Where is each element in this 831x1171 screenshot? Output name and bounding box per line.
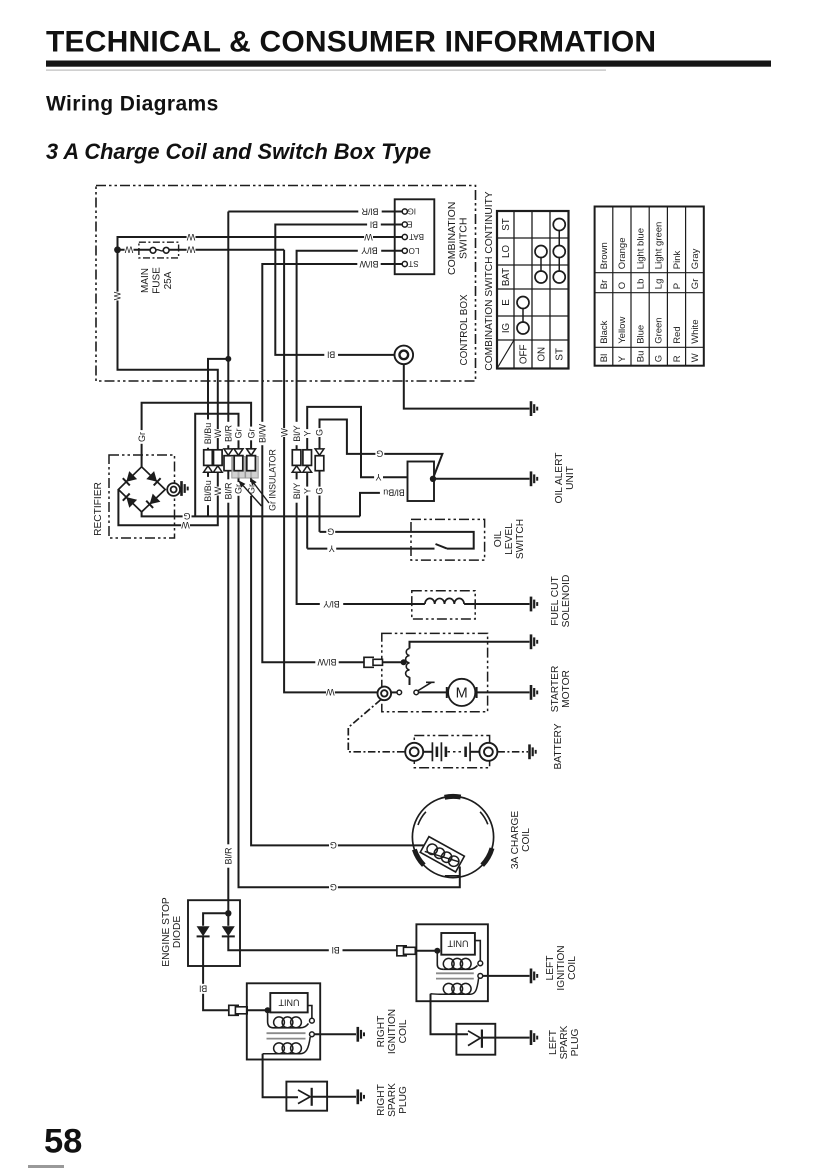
svg-text:OFF: OFF [518,344,529,364]
svg-text:G: G [315,487,325,494]
wire G connector to oil alert unit [320,420,443,532]
svg-text:Gr: Gr [137,432,147,442]
oil level switch enclosure [411,519,485,560]
svg-text:MOTOR: MOTOR [561,670,572,708]
label W at starter [326,687,335,697]
svg-text:Black: Black [599,320,610,343]
svg-text:Bl/Y: Bl/Y [292,483,302,500]
left CDI unit box [441,933,475,955]
right coil core [267,1033,306,1038]
right coil primary terminal [310,1018,315,1023]
wire contact to motor [419,691,449,693]
svg-text:STARTER: STARTER [550,666,561,713]
svg-text:SOLENOID: SOLENOID [561,575,572,628]
starter motor M [448,679,475,706]
svg-text:Gr: Gr [246,428,256,438]
svg-text:OIL ALERT: OIL ALERT [554,453,565,504]
svg-text:Bl/Y: Bl/Y [361,246,378,256]
flywheel magnet right [482,848,492,865]
wire Bl from right diode to left ignition coil [228,936,397,950]
svg-text:W: W [279,428,289,437]
battery positive terminal [405,743,423,761]
svg-text:Bl/R: Bl/R [223,847,233,865]
label Bl/W at switch [357,259,380,269]
wire branch to left diode [203,913,228,926]
svg-text:LEFT: LEFT [545,956,556,981]
svg-text:FUEL CUT: FUEL CUT [550,576,561,625]
left spark plug gap [468,1031,480,1046]
wire Bl/Bu to oil alert unit [360,493,408,517]
svg-text:Light green: Light green [654,222,665,270]
svg-text:W: W [364,232,373,242]
svg-text:Brown: Brown [599,242,610,269]
label Bl/Bu at oil alert unit [380,488,408,498]
label Gr above connector 5 [246,427,257,441]
svg-text:Lb: Lb [635,279,646,290]
svg-text:UNIT: UNIT [278,998,299,1008]
svg-text:SWITCH: SWITCH [515,519,526,559]
wire Bl/Y from LO terminal to fuel cut solenoid [297,251,425,604]
main fuse element [150,247,156,253]
svg-text:W: W [213,486,223,495]
svg-text:Light blue: Light blue [635,228,646,269]
label Gr at rectifier [136,430,147,444]
oil level switch contact arm [436,544,448,549]
svg-text:White: White [690,320,701,344]
starter battery terminal post [378,687,392,701]
wire into left coil primary [415,950,437,952]
svg-text:O: O [617,282,628,289]
svg-text:COMBINATION: COMBINATION [446,202,458,275]
rectifier diode D2 (top-right) [146,471,157,482]
label W above connector run [279,428,290,437]
wire primary terminal to unit [308,1006,312,1019]
svg-text:W: W [213,429,223,438]
right spark plug box [286,1082,327,1111]
ground for fuel cut solenoid [530,597,533,612]
battery cell plates negative side [464,747,467,757]
wire Bl/W from ST terminal to starter magnetic switch [262,264,402,662]
label Y above connector [302,429,313,438]
wire left coil to ground [483,975,530,977]
svg-text:RIGHT: RIGHT [376,1016,387,1048]
connector on Bl/Y wire [292,450,301,466]
svg-text:Orange: Orange [617,238,628,270]
svg-text:Green: Green [654,317,665,343]
svg-text:IG: IG [501,323,512,333]
connector on Bl/Bu wire [204,450,213,466]
Gr insulator sleeve on connector 4 [232,457,245,479]
ground for starter motor [530,685,533,700]
wire terminal to contact [391,691,397,693]
svg-text:Bl/W: Bl/W [257,423,267,443]
svg-text:Bl/Y: Bl/Y [292,425,302,442]
wire starter motor to ground [475,691,529,693]
flywheel notch upper-right [480,812,488,825]
wire Y connector to oil alert unit [307,407,407,549]
label Gr below connector 5 [246,482,257,496]
label Bl/Y above connector [291,422,302,445]
label G at rectifier [183,511,192,521]
wire W main run to rectifier and starter feed [118,250,218,526]
svg-text:G: G [654,355,665,362]
connector on Y wire [303,450,312,466]
ground for left ignition coil [530,969,533,984]
wire Bl/Bu branch to oil alert unit [208,359,228,517]
starter motor enclosure [382,633,488,711]
svg-text:BAT: BAT [409,232,424,241]
svg-text:M: M [456,686,468,702]
node junction at main fuse [114,246,121,253]
label Bl at switch [367,220,381,230]
svg-text:Lg: Lg [654,279,665,290]
svg-text:Bu: Bu [635,351,646,363]
svg-text:Bl/Bu: Bl/Bu [203,480,213,502]
wire relay coil top to ground [410,642,530,649]
svg-text:G: G [330,882,337,892]
label W on BAT wire left [187,232,196,242]
svg-text:P: P [672,283,683,289]
label Bl/R above connector [223,422,234,445]
combination switch terminal pins IG E BAT LO ST [402,209,407,214]
svg-text:Bl/W: Bl/W [317,657,337,667]
svg-text:Wiring Diagrams: Wiring Diagrams [46,93,219,116]
svg-text:COIL: COIL [521,828,532,852]
svg-text:Bl/Y: Bl/Y [323,599,340,609]
svg-text:Gr INSULATOR: Gr INSULATOR [268,449,278,511]
label Bl/Y at fuel cut solenoid [320,599,343,609]
fuel cut solenoid coil L1 [425,598,464,604]
svg-text:Pink: Pink [672,250,683,269]
svg-text:SWITCH: SWITCH [458,218,470,259]
svg-text:ENGINE STOP: ENGINE STOP [161,897,172,967]
engine stop diode D6 [227,913,229,926]
node junction at relay coil [401,659,407,665]
ground for Bl wire [530,401,533,416]
battery mid link [448,751,465,753]
svg-text:LO: LO [501,245,512,258]
right spark plug gap [298,1090,310,1104]
svg-text:PLUG: PLUG [398,1086,409,1114]
label Bl/R near charge coil [223,844,234,867]
svg-text:Y: Y [302,488,312,494]
label W on BAT wire right [364,232,373,242]
svg-text:COIL: COIL [567,956,578,980]
left ignition coil box [416,924,488,1001]
wire W battery feed to starter [284,250,378,693]
connector at right ignition coil [229,1005,239,1015]
svg-text:SPARK: SPARK [559,1025,570,1059]
label Bl/Bu below connector [203,477,214,505]
label W left of fuse [125,245,134,255]
wire G to oil level switch [320,532,474,549]
svg-text:RIGHT: RIGHT [376,1084,387,1116]
node junction Bl/R to Bl/Bu branch [225,356,231,362]
wire left spark plug to ground [482,1037,530,1039]
grommet terminal in control box [395,346,414,365]
svg-text:IGNITION: IGNITION [387,1009,398,1054]
leader arrow to insulator 2 [243,486,261,506]
fuel cut solenoid enclosure [412,591,475,619]
svg-text:IG: IG [408,207,416,216]
wire fuel cut solenoid to ground [464,603,529,605]
starter motor brushes [447,687,477,698]
svg-text:25A: 25A [163,271,174,289]
label Bl/R at switch [358,207,381,217]
Gr insulator sleeve on connector 5 [246,457,259,479]
svg-text:BAT: BAT [501,268,512,286]
right coil secondary terminal [310,1032,315,1037]
label Bl on right diode wire [329,945,343,955]
svg-text:W: W [124,245,133,255]
wire Bl from E terminal [275,225,402,355]
wire into right coil primary [247,1009,267,1011]
left coil primary terminal [478,961,483,966]
svg-text:UNIT: UNIT [565,466,576,490]
rectifier case ground [180,481,183,496]
wire right coil secondary to spark plug [263,1054,298,1097]
rectifier diode D4 (bottom-right) [150,494,161,505]
rectifier diode D3 (bottom-left) [126,497,137,508]
svg-text:58: 58 [44,1123,82,1161]
control box enclosure [96,186,476,382]
label W below connector [212,487,223,496]
svg-text:Yellow: Yellow [617,317,628,344]
label Gr below connector 4 [233,482,244,496]
svg-text:Red: Red [672,326,683,343]
wire oil alert unit to ground [434,478,530,480]
left spark plug box [456,1024,495,1055]
label Bl on left diode wire [196,984,210,994]
svg-text:FUSE: FUSE [152,267,163,294]
battery negative cable to ground [497,751,528,753]
label G at oil level switch [326,527,335,537]
ground for relay coil [530,634,533,649]
connector on G wire [315,449,324,455]
battery BAT1 cell plates [431,742,433,761]
svg-text:Y: Y [375,472,381,482]
header rule [46,61,771,67]
svg-text:ON: ON [536,347,547,362]
label G on charge coil top lead [329,840,338,850]
node junction on oil alert unit [430,476,436,482]
svg-text:MAIN: MAIN [140,268,151,293]
svg-text:E: E [501,299,512,306]
wire Bl from left diode to right ignition coil [203,936,229,1010]
svg-text:R: R [672,355,683,362]
wire Y to oil level switch [307,548,434,550]
svg-text:LEFT: LEFT [548,1030,559,1055]
wire left coil secondary to spark plug [431,994,469,1034]
svg-text:PLUG: PLUG [570,1029,581,1057]
connector on Bl/R wire [224,449,233,455]
connector on W wire [214,450,223,466]
svg-text:COMBINATION SWITCH CONTINUITY: COMBINATION SWITCH CONTINUITY [484,191,495,370]
svg-text:ST: ST [555,348,566,361]
right coil secondary winding [274,1043,285,1054]
svg-text:DIODE: DIODE [172,916,183,948]
label W right of fuse [187,245,196,255]
svg-text:IGNITION: IGNITION [556,945,567,990]
svg-text:3A CHARGE: 3A CHARGE [510,811,521,870]
label W above connector [212,429,223,438]
connector on Bl/W wire [364,657,374,667]
svg-text:TECHNICAL & CONSUMER INFORMATI: TECHNICAL & CONSUMER INFORMATION [46,26,656,59]
label Bl/Y below connector [291,479,302,502]
label Bl/R below connector [223,479,234,502]
label G on charge coil bottom lead [329,882,338,892]
svg-text:Bl: Bl [327,350,335,360]
oil alert unit box [408,462,435,502]
rectifier enclosure [109,455,175,538]
battery enclosure [414,736,489,768]
svg-text:W: W [326,687,335,697]
svg-text:Gr: Gr [234,428,244,438]
connector on G wire [234,449,243,455]
label Y below connector [302,487,313,496]
svg-text:G: G [376,449,383,459]
label Bl/Bu above connector [203,419,214,447]
svg-text:Gray: Gray [690,248,701,269]
relay contact arm [418,682,435,691]
wire right spark plug to ground [312,1096,356,1098]
label G below connector [314,487,325,496]
main fuse F1 enclosure [139,242,179,258]
svg-text:3 A Charge Coil and Switch Box: 3 A Charge Coil and Switch Box Type [46,139,431,164]
rectifier case terminal [167,483,180,496]
svg-text:RECTIFIER: RECTIFIER [93,482,104,536]
wire W through main fuse [118,249,151,251]
wire Bl/R vertical run to engine stop diode [227,212,229,914]
svg-text:Bl/Bu: Bl/Bu [203,423,213,445]
svg-text:Bl: Bl [332,945,340,955]
svg-text:BATTERY: BATTERY [553,723,564,769]
left coil core [436,973,474,978]
battery cable from starter terminal [348,700,405,752]
svg-text:Bl/Bu: Bl/Bu [383,488,405,498]
relay contact points [397,690,402,695]
node junction right coil [265,1007,271,1013]
svg-text:Bl/R: Bl/R [223,482,233,500]
wire right coil to ground [314,1033,356,1035]
svg-text:W: W [113,291,123,300]
svg-text:E: E [407,220,412,229]
svg-text:Bl/R: Bl/R [223,425,233,443]
svg-text:COIL: COIL [398,1019,409,1043]
engine stop diode box [188,900,240,966]
svg-text:Gr: Gr [690,279,701,290]
svg-text:SPARK: SPARK [387,1083,398,1117]
svg-text:UNIT: UNIT [447,939,468,949]
svg-text:G: G [315,429,325,436]
svg-text:Bl/W: Bl/W [359,259,379,269]
label Bl near grommet [324,350,338,360]
ground for oil alert unit [530,471,533,486]
svg-text:Bl/R: Bl/R [361,206,379,216]
flywheel magnet left [414,850,423,866]
svg-text:G: G [183,511,190,521]
label G at oil alert unit [375,449,384,459]
connector on Gr wire [247,449,256,455]
svg-text:G: G [327,527,334,537]
label Bl/Y at switch [358,246,381,256]
flywheel magnet top [445,794,461,800]
svg-text:Y: Y [329,543,335,553]
ground for battery [528,744,531,759]
svg-text:Br: Br [599,280,610,290]
svg-text:Bl: Bl [599,354,610,362]
wire Bl/W to relay coil [383,661,404,663]
left coil secondary winding [443,983,454,994]
label W on left vertical [112,292,123,301]
combination switch U1 [395,199,435,274]
svg-text:W: W [186,232,195,242]
svg-text:Blue: Blue [635,325,646,344]
starter relay coil [406,649,410,678]
relay plunger link [409,677,411,685]
svg-text:G: G [330,840,337,850]
charge coil winding [420,837,464,872]
label Y at oil level switch [327,544,336,554]
svg-text:W: W [690,353,701,362]
wire plates to negative terminal [470,751,479,753]
svg-text:CONTROL BOX: CONTROL BOX [459,294,470,365]
label G above connector [314,428,325,437]
flywheel notch bottom [445,875,460,877]
combination switch continuity table [497,211,569,369]
leader arrow to insulator 1 [254,484,269,503]
svg-text:ST: ST [501,218,512,231]
svg-text:Y: Y [617,355,628,362]
3A charge coil flywheel rim [412,796,493,877]
svg-text:LEVEL: LEVEL [504,523,515,555]
wire G rectifier bottom to charge coil [142,512,360,517]
wire Gr rectifier top to charge coil [142,403,426,846]
rectifier bridge diamond [118,467,165,512]
label Bl/W mid run [257,422,268,445]
ground for right spark plug [356,1089,359,1104]
label Y at oil alert unit [374,472,383,482]
svg-text:OIL: OIL [493,530,504,547]
wire Bl grommet to ground [404,364,530,408]
battery negative terminal [479,743,497,761]
svg-text:Bl: Bl [370,219,378,229]
wire terminal to plates [423,751,432,753]
label Gr above connector 4 [233,427,244,441]
wire primary terminal to unit [475,941,480,961]
connector at left ignition coil [397,946,407,956]
engine stop diode D5 [197,926,210,936]
wire Bl/R from IG terminal [228,211,402,213]
right CDI unit box [270,993,307,1012]
svg-text:Y: Y [302,430,312,436]
label Bl/W at starter [315,657,338,667]
ground for left spark plug [530,1030,533,1045]
rectifier diode D1 (top-left) [126,471,137,482]
label W near rectifier [181,520,190,530]
wire W from BAT terminal [118,237,403,250]
right coil primary winding [268,1010,274,1028]
svg-text:LO: LO [409,246,420,255]
right ignition coil box [247,983,320,1059]
svg-text:ST: ST [408,259,418,268]
left coil secondary terminal [478,974,483,979]
node junction left coil [434,948,440,954]
ground for right ignition coil [356,1027,359,1042]
node junction in diode box [225,910,231,916]
left coil primary winding [437,951,443,970]
wire color code table [595,207,704,366]
